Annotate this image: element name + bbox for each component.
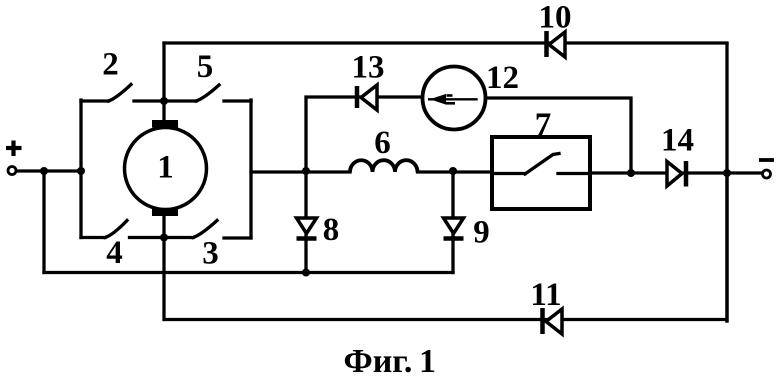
svg-text:8: 8 <box>323 212 340 248</box>
svg-text:Фиг.: Фиг. <box>344 343 413 380</box>
svg-text:3: 3 <box>202 236 219 272</box>
svg-text:11: 11 <box>530 277 561 313</box>
svg-text:2: 2 <box>102 47 119 83</box>
svg-text:12: 12 <box>486 60 519 96</box>
svg-text:9: 9 <box>473 215 490 251</box>
svg-text:1: 1 <box>157 150 174 186</box>
svg-text:13: 13 <box>352 50 385 86</box>
svg-text:5: 5 <box>197 49 214 85</box>
svg-text:10: 10 <box>539 0 572 36</box>
svg-text:7: 7 <box>535 107 552 143</box>
svg-text:1: 1 <box>419 343 436 380</box>
svg-text:14: 14 <box>661 123 694 159</box>
svg-text:6: 6 <box>374 125 391 161</box>
svg-text:4: 4 <box>106 235 123 271</box>
